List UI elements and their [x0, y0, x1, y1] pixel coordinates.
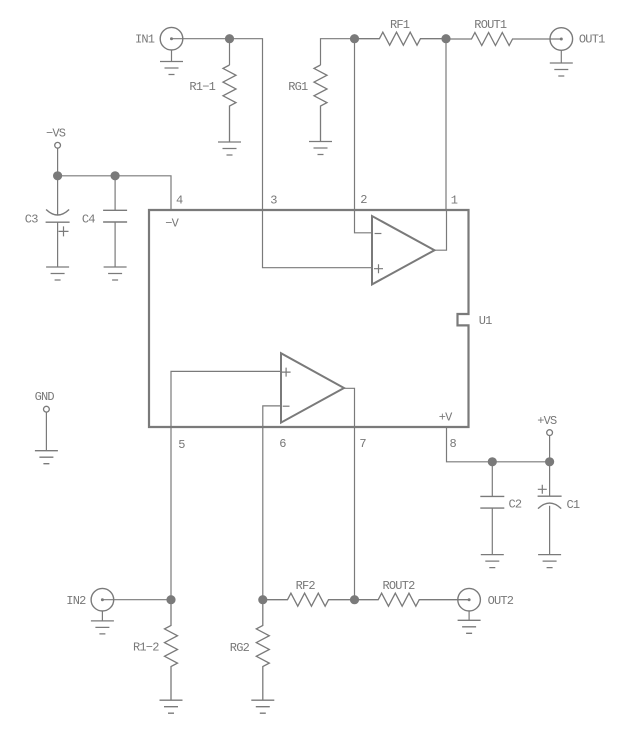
ground under RG1 — [309, 142, 332, 155]
ground under IN2 — [101, 611, 103, 621]
svg-text:+V: +V — [439, 411, 453, 425]
svg-text:RF2: RF2 — [296, 579, 316, 593]
wire pin3 to non-inverting input — [263, 210, 373, 268]
ground under C1 — [538, 555, 561, 568]
IC U1 body with pin-1 notch — [149, 210, 469, 427]
ground under OUT2 — [468, 611, 470, 620]
wire +VS stem — [549, 436, 551, 462]
wire -VS stem — [57, 148, 59, 176]
svg-text:R1−1: R1−1 — [189, 80, 215, 94]
junction IN2/R1-2/pin5 — [166, 595, 175, 604]
ground under RG2 — [251, 700, 274, 713]
wire -VS rail to pin4 — [58, 176, 171, 210]
resistor RG1 — [314, 65, 327, 142]
ground under C2 — [481, 555, 504, 568]
plus marker op-amp B — [282, 368, 291, 377]
resistor RF2 — [263, 593, 355, 606]
resistor RG2 — [256, 600, 269, 701]
wire IN2 to junction — [102, 599, 171, 601]
op-amp B (bottom) — [281, 353, 344, 422]
resistor R1-2 — [165, 600, 178, 701]
junction RG2/RF2/pin6 — [258, 595, 267, 604]
ground under R1-2 — [160, 700, 183, 713]
connector IN2 — [91, 588, 114, 611]
svg-text:C1: C1 — [567, 498, 580, 512]
junction IN1/R1-1 — [225, 34, 234, 43]
svg-text:−VS: −VS — [46, 127, 66, 141]
svg-text:+VS: +VS — [537, 414, 557, 428]
ground GND — [35, 451, 58, 464]
svg-text:IN2: IN2 — [66, 594, 86, 608]
ground under R1-1 — [218, 142, 241, 155]
svg-text:ROUT1: ROUT1 — [474, 18, 507, 32]
svg-text:5: 5 — [178, 438, 185, 452]
junction -VS/C3 — [53, 171, 62, 180]
terminal -VS open circle — [55, 142, 61, 148]
junction RF1/ROUT1/pin1 — [441, 34, 450, 43]
terminal GND open circle — [44, 406, 50, 412]
wire GND stem — [45, 412, 47, 451]
wire pin2 to inverting input — [355, 210, 373, 233]
wire IN1 to pin3 top rail — [172, 39, 263, 210]
svg-text:GND: GND — [35, 390, 55, 404]
capacitor C4 — [114, 176, 116, 211]
resistor ROUT2 — [355, 593, 470, 606]
svg-text:U1: U1 — [479, 314, 492, 328]
svg-text:−V: −V — [165, 216, 179, 230]
wire R1-1 top lead — [229, 39, 231, 65]
capacitor C2 — [491, 462, 493, 497]
svg-text:OUT2: OUT2 — [488, 594, 514, 608]
ground under C4 — [104, 267, 127, 280]
plus marker op-amp A — [374, 264, 383, 273]
connector IN1 — [160, 27, 183, 50]
svg-text:4: 4 — [176, 194, 183, 208]
connector OUT1 — [550, 28, 573, 51]
capacitor C3 — [57, 176, 59, 215]
wire pin8 to +VS rail — [447, 427, 550, 462]
svg-text:R1−2: R1−2 — [133, 641, 159, 655]
resistor ROUT1 — [446, 33, 561, 46]
minus marker op-amp B — [283, 405, 290, 407]
op-amp A (top) — [372, 216, 435, 284]
junction C4 — [111, 171, 120, 180]
capacitor C1 — [549, 462, 551, 496]
terminal +VS open circle — [547, 430, 553, 436]
wire op-amp B output to pin7 junction — [344, 388, 355, 599]
resistor R1-1 — [223, 65, 236, 142]
ground under IN1 — [171, 50, 173, 62]
resistor RF1 — [355, 32, 447, 45]
wire op-amp A output to pin1 — [435, 210, 447, 250]
svg-text:RF1: RF1 — [390, 18, 410, 32]
svg-text:3: 3 — [270, 194, 277, 208]
junction RG1/RF1/pin2 — [350, 34, 359, 43]
ground under C3 — [46, 267, 69, 280]
svg-text:OUT1: OUT1 — [579, 33, 605, 47]
svg-text:ROUT2: ROUT2 — [383, 579, 416, 593]
svg-text:8: 8 — [450, 437, 457, 451]
svg-text:IN1: IN1 — [135, 33, 155, 47]
junction RF2/ROUT2/pin7 — [350, 595, 359, 604]
connector OUT2 — [458, 588, 481, 611]
junction +VS/C1 — [545, 457, 554, 466]
svg-text:C2: C2 — [509, 498, 522, 512]
junction C2 — [488, 457, 497, 466]
svg-text:C4: C4 — [82, 213, 95, 227]
svg-text:C3: C3 — [25, 213, 38, 227]
minus marker op-amp A — [375, 233, 382, 235]
svg-text:2: 2 — [360, 193, 367, 207]
wire non-inverting input to pin5 to IN2 junction — [171, 371, 281, 599]
wire RG1 top to pin2 — [321, 39, 355, 65]
svg-text:RG1: RG1 — [288, 80, 308, 94]
wire pin1 — [445, 39, 447, 210]
wire inverting input to pin6 to RG2 junction — [263, 406, 281, 600]
svg-text:7: 7 — [359, 437, 366, 451]
ground under OUT1 — [560, 50, 562, 63]
svg-text:1: 1 — [451, 194, 458, 208]
wire pin2 — [354, 39, 356, 210]
svg-text:6: 6 — [279, 437, 286, 451]
svg-text:RG2: RG2 — [230, 641, 250, 655]
